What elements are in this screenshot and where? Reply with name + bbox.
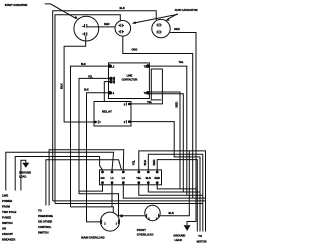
svg-text:LEAD: LEAD <box>19 175 26 179</box>
svg-text:L1: L1 <box>110 176 114 180</box>
svg-text:YEL: YEL <box>131 160 135 166</box>
svg-text:LINE: LINE <box>2 194 8 198</box>
svg-text:BLK: BLK <box>143 160 147 166</box>
svg-text:CONTROL: CONTROL <box>38 225 52 229</box>
svg-text:5: 5 <box>124 102 126 106</box>
svg-text:POWER: POWER <box>2 199 12 203</box>
svg-text:YEL: YEL <box>88 76 93 78</box>
svg-text:RED: RED <box>174 102 178 108</box>
svg-text:BLK: BLK <box>81 64 86 66</box>
svg-text:BREAKER: BREAKER <box>2 238 15 242</box>
svg-text:YEL: YEL <box>179 60 184 64</box>
svg-text:SWITCH: SWITCH <box>38 231 49 235</box>
svg-text:L2: L2 <box>122 176 126 180</box>
svg-text:OR: OR <box>2 227 6 231</box>
svg-text:GROUND: GROUND <box>173 233 185 237</box>
svg-text:TO: TO <box>38 209 42 213</box>
svg-text:BLK: BLK <box>60 83 64 89</box>
svg-text:RUN CAPACITOR: RUN CAPACITOR <box>175 8 198 12</box>
svg-text:2: 2 <box>104 223 106 226</box>
svg-text:CIRCUIT: CIRCUIT <box>2 232 13 236</box>
svg-text:START CAPACITOR: START CAPACITOR <box>5 4 28 7</box>
svg-text:LEAD: LEAD <box>175 238 182 242</box>
svg-text:FROM: FROM <box>2 205 11 209</box>
svg-text:TWO POLE: TWO POLE <box>2 210 17 214</box>
svg-text:YEL: YEL <box>136 176 141 180</box>
svg-text:OVERLOAD: OVERLOAD <box>137 232 154 236</box>
svg-text:2: 2 <box>124 120 126 124</box>
svg-text:CONTACTOR: CONTACTOR <box>122 78 138 81</box>
svg-text:LINE: LINE <box>127 75 133 78</box>
svg-text:RED: RED <box>152 160 156 166</box>
svg-text:L1: L1 <box>111 92 115 95</box>
svg-text:1: 1 <box>99 120 101 124</box>
svg-text:1: 1 <box>116 223 118 226</box>
svg-text:START: START <box>137 228 146 232</box>
svg-text:BLK: BLK <box>84 90 89 92</box>
svg-text:RELAY: RELAY <box>102 109 112 113</box>
svg-text:RED: RED <box>174 27 180 31</box>
svg-text:MAIN OVERLOAD: MAIN OVERLOAD <box>81 236 104 240</box>
svg-text:PRESSURE: PRESSURE <box>38 214 53 218</box>
svg-text:SWITCH: SWITCH <box>2 221 13 225</box>
svg-text:BLK: BLK <box>120 6 125 10</box>
svg-text:TO: TO <box>198 234 202 238</box>
svg-text:BLK: BLK <box>146 176 151 180</box>
svg-text:GN: GN <box>101 176 105 180</box>
svg-text:RED: RED <box>154 176 160 180</box>
svg-text:BLK: BLK <box>169 211 174 215</box>
svg-text:OR OTHER: OR OTHER <box>38 220 52 224</box>
svg-text:L2: L2 <box>111 65 115 68</box>
svg-text:MOTOR: MOTOR <box>197 240 207 244</box>
svg-text:RED: RED <box>104 22 110 26</box>
svg-text:FUSED: FUSED <box>2 216 11 220</box>
svg-text:ORG: ORG <box>132 48 138 52</box>
